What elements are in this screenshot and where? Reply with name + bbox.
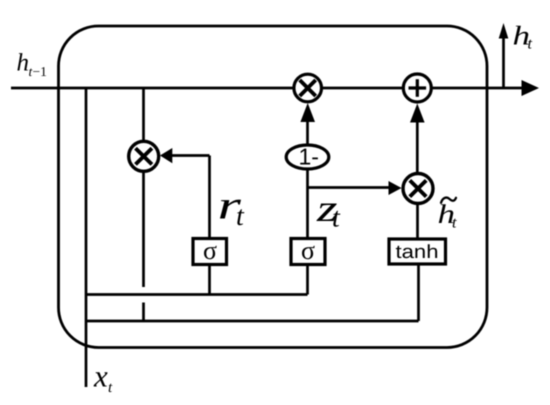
svg-text:σ: σ [203,236,217,265]
svg-text:x: x [93,359,108,394]
svg-text:σ: σ [301,236,315,265]
svg-text:tanh: tanh [396,242,439,263]
svg-text:t: t [452,215,457,232]
svg-text:t: t [528,36,533,53]
svg-text:−1: −1 [33,64,47,79]
svg-text:1-: 1- [299,144,319,170]
svg-text:h: h [17,50,30,77]
svg-text:t: t [332,203,341,234]
svg-text:t: t [236,201,245,232]
